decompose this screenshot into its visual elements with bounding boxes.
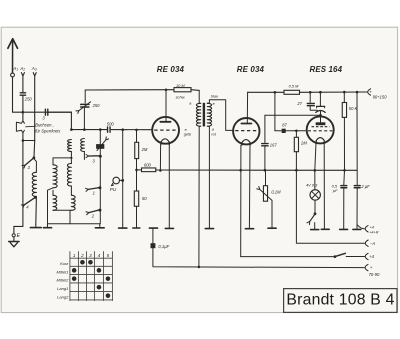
capacitor 27 [296, 92, 317, 111]
coil L4 [67, 158, 71, 186]
wire varcap down [83, 107, 85, 129]
ground bar 0.1uF [149, 227, 157, 229]
ground bar transformer [205, 228, 213, 230]
coil L2 (aerial coupling) [68, 140, 72, 152]
label RE034 no.1 [157, 65, 185, 74]
wire coil bottoms [53, 210, 71, 224]
tube V1 filament [161, 139, 169, 145]
svg-text:Mittel2: Mittel2 [57, 277, 70, 282]
terminal A1 [11, 66, 19, 77]
tube V2 filament [242, 140, 250, 146]
resistor 0.5M [284, 84, 300, 95]
wire 2M V3 to bus [295, 152, 298, 172]
rail to transformer [191, 90, 199, 104]
svg-text:87: 87 [282, 123, 287, 128]
resistor 2M (V3 grid leak) [294, 131, 307, 152]
svg-text:+: + [370, 265, 373, 270]
tube V3 fil leg right [323, 143, 325, 230]
PU connector [110, 177, 124, 192]
ground bar lamp [311, 223, 319, 230]
tube V1 anode [160, 121, 170, 123]
tube V2 fil leg left [239, 145, 242, 256]
wire box to switch chain [22, 133, 35, 142]
svg-text:600: 600 [144, 163, 152, 168]
tube V3 screen grid [312, 126, 330, 128]
wire L1 to ground [35, 197, 38, 225]
wire 2M to 600 [135, 159, 138, 191]
wire -A [296, 170, 364, 243]
capacitor 500 [107, 121, 115, 132]
svg-text:5: 5 [107, 253, 110, 258]
terminal +70-90 [365, 264, 380, 277]
tube V1 envelope [152, 117, 179, 144]
capacitor 167 [262, 142, 278, 147]
tube V2 anode lead [246, 92, 248, 123]
svg-text:RE 034: RE 034 [237, 65, 265, 74]
resistor 600 [137, 163, 156, 172]
svg-text:90÷150: 90÷150 [373, 95, 388, 100]
wire +70-90 [153, 248, 365, 268]
coil L5 (lower left) [53, 190, 57, 210]
wire A3 down [34, 76, 36, 141]
lamp switch [307, 200, 316, 224]
wire switch chain [22, 141, 24, 227]
tube V3 envelope [307, 116, 334, 143]
svg-text:PU: PU [110, 187, 117, 192]
tube V2 grid [235, 130, 257, 132]
capacitor 0.5uF [332, 170, 347, 193]
ground bar 50 line [133, 206, 140, 228]
svg-text:Buchsen ,: Buchsen , [35, 122, 54, 127]
coil L6 (lower right) [71, 195, 75, 210]
tube V1 fil leg left [159, 145, 162, 172]
svg-text:e: e [213, 102, 215, 106]
wire 2M line top [135, 129, 138, 143]
svg-text:2M: 2M [300, 141, 307, 146]
wire 167 to bus [264, 146, 267, 172]
anode rail right [248, 91, 284, 94]
table grid [70, 252, 113, 301]
resistor 2M (grid leak) [135, 142, 148, 158]
svg-text:RE 034: RE 034 [157, 65, 185, 74]
svg-text:Lang1: Lang1 [57, 286, 68, 291]
svg-text:Brandt 108 B 4: Brandt 108 B 4 [286, 292, 394, 309]
coil L7 (grid coupling) [81, 139, 85, 160]
transformer primary bottom lead [199, 126, 201, 267]
pot wiper to ground [271, 200, 273, 228]
switch 4 left [21, 196, 36, 209]
lamp 4V 0.3 [306, 170, 320, 200]
transformer secondary [207, 103, 211, 126]
transformer secondary top lead [207, 100, 233, 131]
trimmer capacitor [316, 92, 325, 117]
svg-text:250: 250 [24, 97, 33, 102]
ground bar V3 [321, 228, 329, 230]
title box [284, 289, 397, 313]
svg-text:0,1M: 0,1M [271, 189, 281, 194]
capacitor 250 (A2) [20, 93, 32, 102]
resistor 10M [174, 83, 191, 99]
svg-text:500: 500 [107, 121, 115, 126]
tube V3 control grid [308, 130, 332, 132]
svg-text:e: e [185, 128, 187, 132]
terminal +4+R [357, 225, 379, 235]
ground bar 2uF [353, 228, 361, 230]
table row labels [57, 261, 70, 299]
coil L1 [32, 172, 36, 196]
wire A2 down [22, 76, 24, 92]
switch 2 (wave change) [86, 209, 101, 219]
wire grid-leak line [122, 130, 124, 224]
label RE034 no.2 [237, 65, 265, 74]
wire antenna to tuner [48, 112, 72, 129]
label blau [211, 94, 219, 98]
earth terminal E [9, 226, 21, 246]
svg-text:1: 1 [93, 190, 95, 195]
svg-text:Lang2: Lang2 [57, 294, 69, 299]
potentiometer 0.1M [257, 170, 281, 201]
svg-text:für Sperrkreis: für Sperrkreis [35, 129, 61, 134]
svg-text:70-90: 70-90 [369, 272, 380, 277]
title text [286, 292, 394, 309]
svg-text:4V 0,3: 4V 0,3 [306, 182, 318, 187]
capacitor 87 (grid) [282, 123, 288, 133]
terminal +4 [365, 253, 374, 259]
table header digits [73, 253, 110, 258]
ground bar pot [268, 227, 276, 229]
switch 3 (wave change) [86, 149, 102, 224]
capacitor 2uF [354, 92, 370, 189]
ground bar V2 [245, 228, 253, 230]
label Buchsen fuer Sperrkreis [26, 122, 62, 133]
svg-text:2 µF: 2 µF [360, 184, 370, 189]
label a rot [211, 127, 216, 136]
svg-text:a: a [189, 102, 191, 106]
grid wire left [70, 128, 107, 131]
table contact dots [72, 260, 110, 298]
wire 0.5uF to ground [343, 188, 345, 230]
variometer core [96, 130, 109, 151]
svg-text:0,5 M: 0,5 M [289, 84, 299, 89]
wire coupling vertical [274, 92, 276, 131]
svg-text:+4: +4 [370, 225, 374, 229]
wire to E [14, 225, 23, 227]
svg-text:µF: µF [333, 188, 338, 193]
svg-text:1: 1 [73, 253, 76, 258]
tube V2 anode [241, 123, 251, 125]
svg-text:a: a [212, 127, 214, 131]
svg-text:50: 50 [142, 196, 147, 201]
capacitor 3 (series antenna) [42, 109, 47, 120]
svg-text:4: 4 [98, 253, 101, 258]
transformer secondary bottom lead [207, 126, 209, 228]
coil L3 [53, 165, 57, 188]
svg-text:gelb: gelb [184, 133, 191, 137]
svg-text:27: 27 [296, 101, 302, 106]
svg-text:250: 250 [92, 103, 101, 108]
svg-text:+4: +4 [369, 254, 374, 259]
svg-text:167: 167 [270, 142, 278, 147]
label e gelb [184, 128, 191, 137]
terminal -A [365, 240, 375, 246]
wire 50K to bus [343, 117, 346, 171]
tube V3 fil leg left [314, 143, 317, 172]
tube V1 anode lead [165, 90, 167, 122]
svg-text:RES 164: RES 164 [310, 65, 343, 74]
grid wire V3 [275, 130, 281, 132]
switch 3 left [22, 156, 35, 169]
svg-text:Kurz: Kurz [60, 261, 68, 266]
wire coupling horizontal [265, 114, 322, 117]
ground bar 0.5uF [340, 228, 348, 230]
resistor 50 [134, 191, 147, 206]
capacitor 0.1uF [151, 228, 170, 249]
svg-text:schw.: schw. [176, 94, 186, 99]
label e secondary top [213, 102, 215, 106]
wire 167 drop [264, 115, 266, 142]
tube V2 envelope [233, 118, 259, 144]
antenna symbol [8, 39, 18, 73]
ground bar L3 [43, 225, 51, 228]
svg-text:2: 2 [80, 253, 84, 258]
svg-text:0,1µF: 0,1µF [158, 244, 169, 249]
wire A3 to coil L1 [34, 141, 36, 173]
label a primary top [189, 102, 191, 106]
tube V3 filament [316, 138, 324, 143]
svg-text:blau: blau [211, 94, 219, 98]
terminal A2 [19, 66, 25, 76]
ground bar PU line [119, 224, 127, 228]
wire 2uF to ground [356, 188, 358, 230]
svg-text:50 K: 50 K [349, 106, 358, 111]
ground bar V1 [165, 227, 173, 229]
switch 1 (wave change) [86, 186, 102, 195]
wire +4 [241, 256, 335, 258]
svg-text:2M: 2M [141, 147, 148, 152]
tube V1 fil leg right [168, 145, 170, 229]
socket box (Sperrkreis) [16, 121, 24, 133]
ground bar switch line [95, 224, 104, 228]
switch +4 [334, 253, 365, 258]
terminal A3 [31, 66, 37, 76]
resistor 50K [342, 92, 357, 117]
grid wire right [111, 128, 151, 131]
wire A2 to box [22, 95, 25, 120]
ground bar L1 [30, 225, 41, 228]
variable capacitor 250 [76, 102, 100, 114]
svg-text:10 M: 10 M [176, 83, 185, 88]
anode rail to terminal [300, 91, 368, 94]
terminal +90-150 [368, 89, 388, 100]
transformer core [203, 103, 205, 127]
anode rail left [85, 89, 174, 92]
bottom bus [48, 223, 100, 225]
wire L4 to L6 [70, 186, 72, 195]
transformer primary [196, 103, 200, 126]
wire L2 jog [53, 152, 73, 165]
svg-text:3: 3 [89, 253, 92, 258]
svg-text:–A: –A [369, 241, 375, 246]
tube V2 fil leg right [248, 145, 251, 229]
filament bus [156, 169, 357, 171]
tube V3 anode [316, 117, 326, 125]
label RES164 [310, 65, 343, 74]
wire L3 bottom jog [48, 188, 54, 225]
svg-text:Mittel1: Mittel1 [57, 269, 69, 274]
grid wire V3 right [286, 130, 307, 133]
tube V1 grid [154, 129, 176, 131]
wire top rail corner [84, 90, 86, 103]
wire A1 down [13, 77, 72, 112]
svg-text:+4+R: +4+R [369, 230, 379, 234]
